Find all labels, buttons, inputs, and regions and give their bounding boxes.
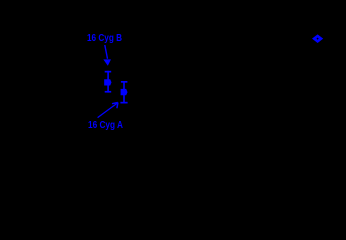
- arrow to 16 Cyg B data point: [103, 45, 111, 66]
- data point 16 Cyg B with error bar: [104, 71, 111, 93]
- svg-text:16 Cyg A: 16 Cyg A: [88, 119, 123, 131]
- data point 16 Cyg A with error bar: [120, 81, 127, 104]
- svg-text:16 Cyg B: 16 Cyg B: [87, 32, 122, 44]
- arrow to 16 Cyg A data point: [98, 103, 118, 118]
- diamond data point marker (companion star): [312, 34, 323, 43]
